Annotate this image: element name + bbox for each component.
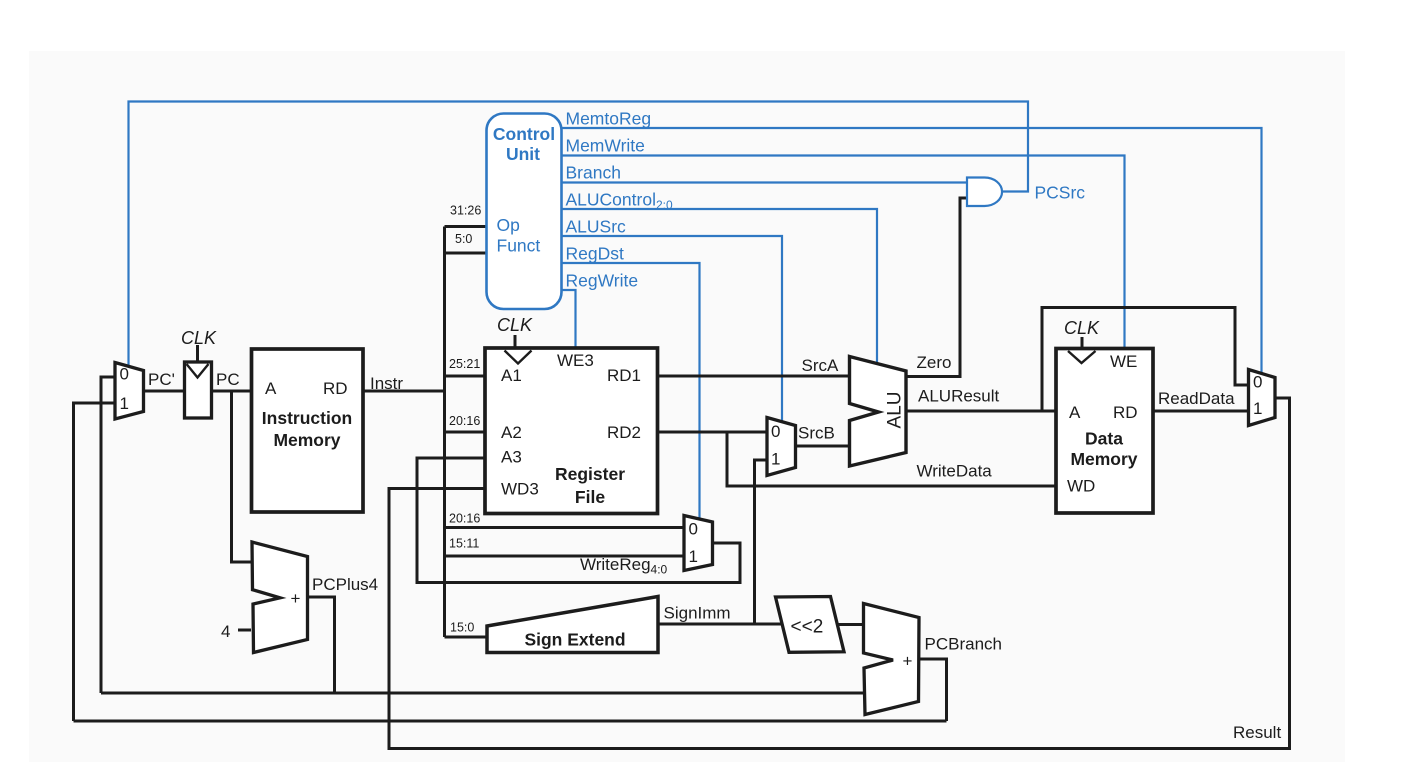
wire RegWrite: control unit to register file WE3 bbox=[562, 290, 576, 350]
svg-text:Register: Register bbox=[555, 464, 625, 484]
svg-text:CLK: CLK bbox=[181, 328, 217, 348]
svg-text:Result: Result bbox=[1233, 723, 1281, 742]
svg-text:A2: A2 bbox=[501, 423, 522, 442]
wire ALUResult to data memory A bbox=[906, 410, 1056, 413]
svg-text:PCBranch: PCBranch bbox=[925, 635, 1002, 654]
svg-text:CLK: CLK bbox=[497, 315, 533, 335]
wire RD2 to SrcB mux input 0 bbox=[658, 431, 768, 434]
wire RD1 SrcA to ALU bbox=[658, 375, 851, 378]
wire A2 stub 20:16 bbox=[445, 431, 486, 434]
svg-text:5:0: 5:0 bbox=[455, 232, 472, 246]
wire CLK tick data memory bbox=[1081, 337, 1084, 348]
wire ALUSrc: control unit to SrcB mux select bbox=[562, 236, 783, 423]
wire PCBranch rail bbox=[74, 720, 947, 723]
shifter left-shift-2 bbox=[776, 597, 845, 653]
svg-text:ALUResult: ALUResult bbox=[918, 387, 1000, 406]
svg-text:WD: WD bbox=[1067, 477, 1095, 496]
svg-text:A: A bbox=[265, 379, 277, 398]
wire PC branch down to PCPlus4 adder top input bbox=[232, 391, 255, 562]
instruction memory box bbox=[252, 349, 364, 512]
svg-text:SrcB: SrcB bbox=[798, 424, 835, 443]
svg-text:0: 0 bbox=[771, 422, 780, 441]
sign extend unit bbox=[487, 597, 658, 653]
wire SrcB mux output to ALU bbox=[796, 445, 851, 448]
wire WriteReg mux output loop to A3 bbox=[417, 458, 740, 583]
svg-text:<<2: <<2 bbox=[791, 617, 824, 638]
wire ReadData to result mux input 1 bbox=[1153, 410, 1249, 413]
svg-text:PCPlus4: PCPlus4 bbox=[312, 575, 378, 594]
svg-text:WD3: WD3 bbox=[501, 480, 539, 499]
wire MemWrite: control unit to data memory WE bbox=[562, 156, 1125, 351]
svg-text:1: 1 bbox=[771, 450, 780, 469]
wire Zero: ALU to AND gate lower input bbox=[906, 198, 967, 377]
wire SignImm from sign extend to shifter bbox=[658, 623, 783, 626]
svg-text:Op: Op bbox=[497, 215, 520, 235]
svg-text:A3: A3 bbox=[501, 448, 522, 467]
svg-text:Data: Data bbox=[1085, 429, 1123, 449]
wire 20:16 stub to WriteReg mux input 0 bbox=[445, 526, 685, 529]
svg-text:Control: Control bbox=[493, 124, 555, 144]
svg-text:WE3: WE3 bbox=[557, 351, 594, 370]
ALU body bbox=[850, 357, 907, 467]
svg-text:0: 0 bbox=[1253, 373, 1262, 392]
svg-text:Instr: Instr bbox=[370, 374, 403, 393]
wire ALUResult bypass over data memory to result mux input 0 bbox=[1042, 308, 1249, 412]
svg-text:SrcA: SrcA bbox=[802, 356, 840, 375]
wire CLK tick register file bbox=[514, 335, 517, 348]
wire Funct stub 5:0 bbox=[445, 252, 487, 255]
AND gate PCSrc bbox=[967, 178, 1002, 207]
wire PCPlus4 rail to branch adder bottom input bbox=[101, 692, 864, 695]
svg-text:1: 1 bbox=[689, 547, 698, 566]
wire shifter output to PCBranch adder top input bbox=[837, 623, 865, 626]
wire 15:11 stub to WriteReg mux input 1 bbox=[445, 555, 685, 558]
wire SignImm branch up to SrcB mux input 1 bbox=[755, 460, 768, 624]
wire PCPlus4 feedback to PC mux input 0 bbox=[101, 377, 115, 693]
svg-text:PC: PC bbox=[216, 370, 240, 389]
svg-text:20:16: 20:16 bbox=[449, 414, 480, 428]
svg-text:Branch: Branch bbox=[566, 163, 621, 183]
svg-text:4: 4 bbox=[221, 622, 230, 641]
wire Instr: instruction memory RD to trunk bbox=[363, 390, 445, 393]
svg-text:PC': PC' bbox=[148, 370, 175, 389]
wire Result: result mux output down and left to WD3 riser bbox=[389, 398, 1290, 749]
svg-text:RD2: RD2 bbox=[607, 423, 641, 442]
svg-text:20:16: 20:16 bbox=[449, 512, 480, 526]
wire 15:0 stub to sign extend bbox=[445, 636, 488, 639]
svg-text:Instruction: Instruction bbox=[262, 408, 352, 428]
svg-text:RD: RD bbox=[1113, 403, 1138, 422]
svg-text:Funct: Funct bbox=[497, 236, 541, 256]
register file box bbox=[485, 348, 658, 514]
svg-text:ALU: ALU bbox=[885, 392, 906, 429]
svg-text:ReadData: ReadData bbox=[1158, 389, 1235, 408]
clock chevron PC bbox=[187, 364, 209, 378]
mux M3 SrcB select bbox=[767, 418, 796, 476]
svg-text:+: + bbox=[291, 589, 301, 608]
svg-text:RD1: RD1 bbox=[607, 366, 641, 385]
control unit rounded box bbox=[487, 114, 562, 310]
svg-text:WriteData: WriteData bbox=[917, 462, 993, 481]
mux M1 PC source select bbox=[115, 363, 144, 420]
svg-text:RD: RD bbox=[323, 379, 348, 398]
wire Branch: control unit to AND gate input bbox=[562, 181, 968, 183]
svg-text:1: 1 bbox=[1253, 399, 1262, 418]
svg-text:15:11: 15:11 bbox=[449, 537, 479, 551]
wire A1 stub 25:21 bbox=[445, 375, 486, 378]
svg-text:A1: A1 bbox=[501, 366, 522, 385]
wire RegDst: control unit to WriteReg mux select bbox=[562, 263, 700, 520]
wire Op stub 31:26 bbox=[445, 225, 487, 228]
svg-text:15:0: 15:0 bbox=[450, 621, 474, 635]
wire MemtoReg: control unit to result mux select bbox=[562, 128, 1262, 374]
wire CLK tick PC bbox=[196, 345, 199, 361]
svg-text:ALUSrc: ALUSrc bbox=[566, 217, 627, 237]
svg-text:Zero: Zero bbox=[917, 353, 952, 372]
wire WriteData branch down from RD2 to data memory WD bbox=[727, 432, 1056, 486]
wire PCBranch adder output down to rail bbox=[919, 659, 947, 721]
wire constant 4 into PCPlus4 adder bbox=[238, 629, 251, 632]
adder PCPlus4 bbox=[252, 542, 308, 653]
wire PC' mux output to PC register bbox=[144, 390, 185, 393]
adder PCBranch bbox=[864, 604, 920, 715]
svg-text:RegDst: RegDst bbox=[566, 244, 624, 264]
svg-text:Sign Extend: Sign Extend bbox=[524, 630, 625, 650]
svg-text:SignImm: SignImm bbox=[664, 604, 731, 623]
svg-text:Memory: Memory bbox=[1070, 449, 1137, 469]
svg-text:CLK: CLK bbox=[1064, 318, 1100, 338]
wire PCSrc: AND output right, up, long left, down to PC mux select bbox=[129, 102, 1029, 368]
svg-text:PCSrc: PCSrc bbox=[1035, 183, 1086, 203]
mux M4 result select bbox=[1249, 370, 1276, 426]
wire PCPlus4 adder output down to rail bbox=[308, 597, 335, 693]
svg-text:0: 0 bbox=[689, 520, 698, 539]
svg-text:WE: WE bbox=[1110, 352, 1137, 371]
clock chevron data memory bbox=[1068, 351, 1096, 363]
svg-text:Memory: Memory bbox=[273, 430, 340, 450]
wire PCBranch feedback to PC mux input 1 bbox=[74, 403, 116, 721]
svg-text:MemWrite: MemWrite bbox=[566, 136, 645, 156]
wire PC register to instruction memory A bbox=[212, 390, 252, 393]
svg-text:File: File bbox=[575, 487, 605, 507]
mux M2 WriteReg select bbox=[684, 516, 713, 571]
svg-text:MemtoReg: MemtoReg bbox=[566, 109, 652, 129]
register PC bbox=[185, 362, 212, 418]
svg-text:1: 1 bbox=[120, 394, 129, 413]
clock chevron register file bbox=[505, 351, 532, 364]
wire ALUControl: control unit to ALU top bbox=[562, 209, 878, 367]
wire Instr trunk vertical bbox=[443, 227, 446, 638]
svg-text:0: 0 bbox=[120, 365, 129, 384]
svg-text:A: A bbox=[1069, 403, 1081, 422]
svg-text:25:21: 25:21 bbox=[449, 357, 480, 371]
svg-text:+: + bbox=[903, 652, 913, 671]
svg-text:31:26: 31:26 bbox=[450, 204, 481, 218]
svg-text:Unit: Unit bbox=[506, 144, 540, 164]
data memory box bbox=[1056, 349, 1153, 514]
svg-text:RegWrite: RegWrite bbox=[566, 271, 639, 291]
